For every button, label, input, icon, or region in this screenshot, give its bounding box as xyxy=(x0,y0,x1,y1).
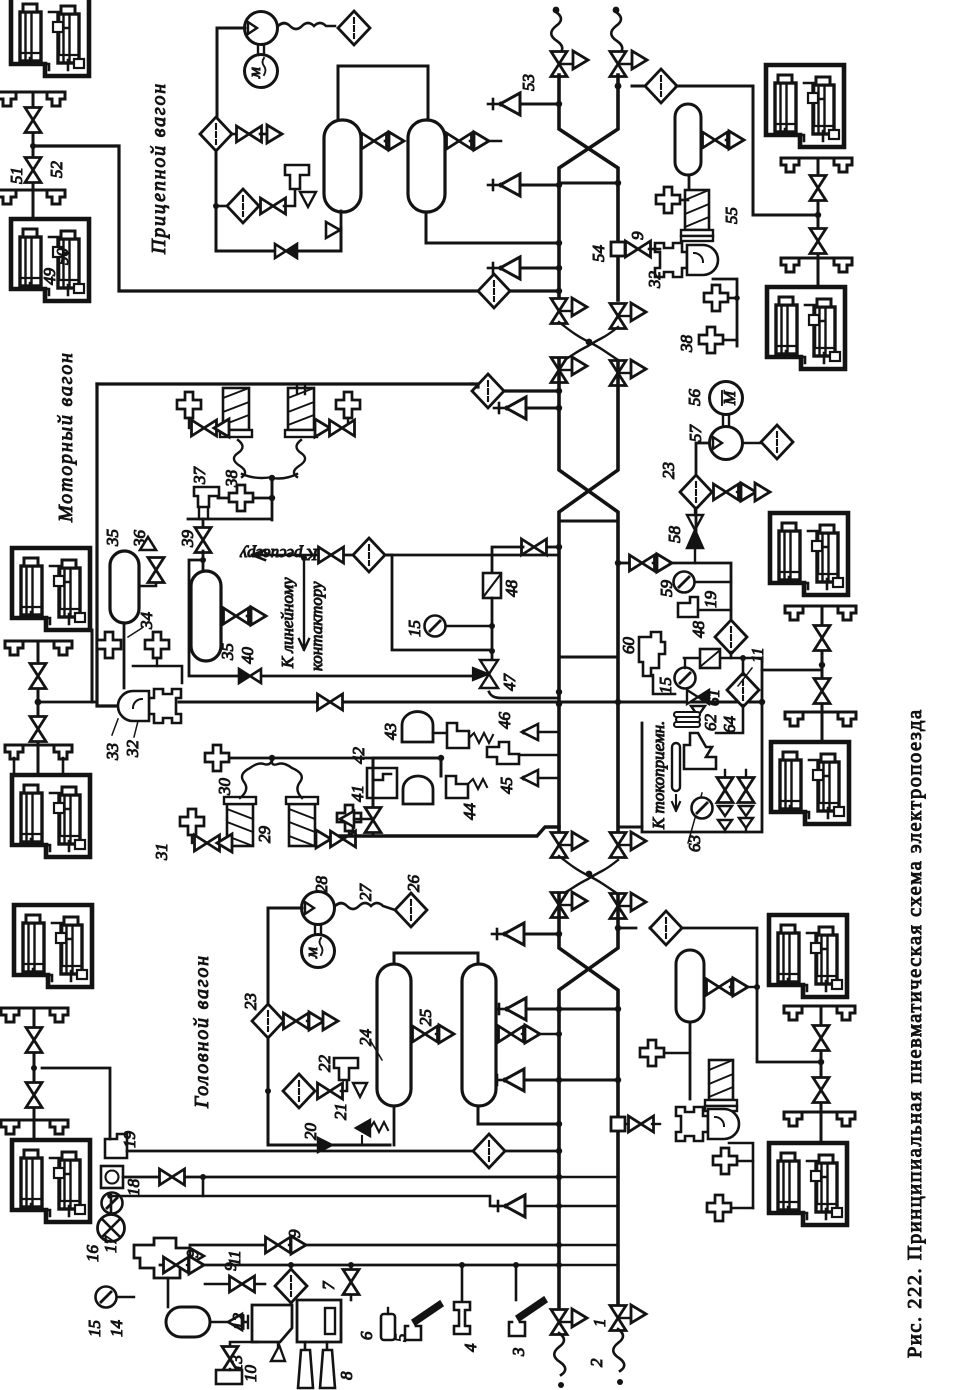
wire hose junction to device 37 line xyxy=(271,478,274,498)
svg-text:11: 11 xyxy=(748,647,767,663)
bogie box trailer-right-1 xyxy=(766,65,844,147)
trailer right: filter diamond to air unit xyxy=(632,69,818,215)
drain valve pair xyxy=(232,125,282,143)
aux reservoir trailer right xyxy=(675,104,701,175)
bogie box motor-left-1 xyxy=(12,548,90,630)
valve right of 25 to trunk xyxy=(496,1025,562,1043)
filter diamond 2 xyxy=(216,189,259,223)
svg-text:15: 15 xyxy=(405,620,424,637)
bogie box trailer-right-2 xyxy=(767,287,845,369)
valve to trunk xyxy=(611,1117,625,1131)
wire left trunk upper xyxy=(559,75,618,300)
node y243 junction reservoir line xyxy=(556,240,562,246)
svg-text:29: 29 xyxy=(255,826,274,844)
hoses from contactors xyxy=(234,440,272,478)
main reservoir 2 trailer xyxy=(408,120,445,212)
svg-text:33: 33 xyxy=(103,743,122,761)
svg-text:6: 6 xyxy=(357,1331,376,1340)
valve on K resiveru line xyxy=(319,547,344,563)
hoses crossing boundary 2 xyxy=(559,856,618,894)
valve 10 xyxy=(230,1342,258,1348)
device 19 xyxy=(678,597,698,617)
svg-text:К линейному: К линейному xyxy=(278,577,297,669)
svg-text:Головной вагон: Головной вагон xyxy=(191,954,213,1109)
end cock right below hose 2 xyxy=(610,893,646,919)
svg-text:32: 32 xyxy=(123,740,142,759)
wire boundary motor/head xyxy=(340,827,559,836)
valve 40 xyxy=(239,669,261,683)
stop cock at y185 xyxy=(488,174,562,196)
svg-text:47: 47 xyxy=(500,673,519,692)
gauge 15b xyxy=(675,660,696,689)
svg-text:60: 60 xyxy=(619,637,638,655)
dome unit head xyxy=(676,1107,739,1141)
lines y1245 y1265 xyxy=(190,1244,559,1247)
wire left feeder down xyxy=(97,384,119,706)
pedal valve 3 xyxy=(515,1265,518,1300)
svg-text:30: 30 xyxy=(215,778,234,797)
svg-text:48: 48 xyxy=(502,580,521,598)
compressor 28 xyxy=(302,892,335,925)
wire trunk motor section xyxy=(559,360,618,830)
wire right trunk upper xyxy=(559,75,618,300)
svg-text:11: 11 xyxy=(225,1250,244,1266)
svg-text:16: 16 xyxy=(83,1245,102,1263)
svg-text:35: 35 xyxy=(218,643,237,661)
bogie box motor-left-2 xyxy=(12,775,90,857)
svg-text:39: 39 xyxy=(178,530,197,549)
drain valves on 35b xyxy=(221,607,266,625)
svg-text:62: 62 xyxy=(701,714,720,732)
svg-text:54: 54 xyxy=(589,245,608,263)
svg-text:56: 56 xyxy=(685,389,704,407)
svg-text:23: 23 xyxy=(241,993,260,1010)
valve right of reservoir 2 xyxy=(445,132,501,150)
svg-text:51: 51 xyxy=(7,167,26,184)
wire down to oil separator xyxy=(215,150,218,251)
device 5 xyxy=(381,1314,395,1340)
stop cock y934 xyxy=(492,923,562,945)
svg-text:26: 26 xyxy=(404,875,423,893)
EPK head xyxy=(705,1060,737,1111)
svg-text:9: 9 xyxy=(285,1229,304,1238)
device 18 + line y1177 xyxy=(101,1166,123,1188)
valve bogie chain motor-left lower xyxy=(30,717,46,742)
filter diamond on K resiveru xyxy=(353,538,385,572)
intake diamond 26 xyxy=(395,893,427,927)
svg-text:28: 28 xyxy=(312,876,331,894)
drain valve pair xyxy=(701,131,744,149)
svg-text:3: 3 xyxy=(509,1348,528,1358)
intake filter diamond xyxy=(338,11,370,45)
device 37 xyxy=(194,487,219,507)
check into reservoir xyxy=(326,222,340,238)
bellows 62 xyxy=(674,712,700,727)
node y704 xyxy=(556,701,562,707)
cross xyxy=(640,1040,690,1066)
motor of compressor 28 xyxy=(302,935,335,968)
gauge bottom xyxy=(692,798,713,819)
valve 25 between xyxy=(411,1025,454,1043)
svg-text:64: 64 xyxy=(720,716,739,734)
device 42 xyxy=(367,768,397,798)
svg-text:25: 25 xyxy=(416,1009,435,1026)
compressor to diamond 23 xyxy=(696,443,709,477)
device 45 xyxy=(487,742,519,764)
end cock right top xyxy=(610,51,647,77)
node K lineynomu branch xyxy=(301,555,307,561)
device 60 xyxy=(639,632,665,676)
line y1196 xyxy=(203,1177,494,1206)
device 12 xyxy=(252,1305,292,1342)
wire crosses 34 to unit 33 xyxy=(133,666,182,683)
valve bogie chain head-right upper xyxy=(813,1026,829,1051)
svg-text:15: 15 xyxy=(85,1320,104,1337)
aux reservoir head right xyxy=(676,950,704,1022)
device 63/64 block xyxy=(684,733,716,769)
stop cock y1080 + rung xyxy=(492,1069,621,1091)
svg-text:50: 50 xyxy=(53,248,72,266)
svg-text:61: 61 xyxy=(704,689,723,706)
svg-text:31: 31 xyxy=(152,843,171,861)
svg-text:59: 59 xyxy=(657,580,676,598)
stop cock at y268 xyxy=(488,257,562,279)
node bogie feed trailer-right xyxy=(815,212,821,218)
leader lines 33 32 xyxy=(112,719,138,737)
bell 43 xyxy=(402,712,433,742)
reservoir 25 to trunk xyxy=(478,1106,559,1124)
filter diamond 48b xyxy=(715,620,747,654)
svg-text:м: м xyxy=(302,947,321,959)
svg-text:8: 8 xyxy=(337,1371,356,1380)
valve bogie chain head-left lower xyxy=(26,1083,42,1108)
wire y519 local xyxy=(188,477,272,520)
svg-text:4: 4 xyxy=(461,1343,480,1352)
svg-text:48: 48 xyxy=(689,621,708,639)
reservoir 35a xyxy=(110,551,139,623)
cross 38 xyxy=(699,327,737,353)
wire reservoir 24 stem xyxy=(393,1106,396,1145)
svg-text:52: 52 xyxy=(47,161,66,179)
svg-text:21: 21 xyxy=(331,1103,350,1120)
drain triangle xyxy=(300,192,316,207)
node y1265 xyxy=(556,1262,562,1268)
svg-text:19: 19 xyxy=(120,1131,139,1149)
svg-text:К токоприемн.: К токоприемн. xyxy=(649,721,668,830)
filter on line 19 xyxy=(473,1134,505,1168)
gauge 15 xyxy=(425,616,493,637)
junction + bell 44 xyxy=(373,758,441,776)
valve 10 stem xyxy=(229,1369,231,1370)
drain valves of separator 23 xyxy=(712,483,770,501)
reservoir 25 xyxy=(462,964,496,1106)
end cock right below hose xyxy=(610,360,646,386)
cross left xyxy=(177,392,201,428)
device 19h + line y1151 xyxy=(105,1134,127,1158)
stop cock y408 xyxy=(494,397,562,419)
filter diamond on main line xyxy=(478,274,562,308)
svg-text:12: 12 xyxy=(229,1313,248,1331)
cross 38 motor xyxy=(229,485,253,511)
svg-text:35: 35 xyxy=(103,529,122,547)
ports under box xyxy=(0,92,65,106)
compressor 57 xyxy=(710,427,743,460)
valve bogie chain head-right lower xyxy=(813,1078,829,1103)
valve 51 xyxy=(32,92,35,219)
svg-text:38: 38 xyxy=(677,335,696,354)
valve bogie chain trailer-right lower xyxy=(810,229,826,254)
svg-text:40: 40 xyxy=(238,647,257,665)
wire compressor 28 discharge loop xyxy=(268,1037,390,1145)
svg-text:46: 46 xyxy=(495,712,514,730)
stop cock 53 xyxy=(488,93,562,115)
hose contactor 29 right xyxy=(272,762,302,798)
wire rung y183 xyxy=(559,182,618,185)
svg-text:15: 15 xyxy=(656,677,675,694)
cross 2 xyxy=(704,285,740,311)
check triangle left xyxy=(340,811,373,827)
wire 37 to 39 xyxy=(202,519,205,527)
svg-text:Рис. 222. Принципиальная пневм: Рис. 222. Принципиальная пневматическая … xyxy=(904,708,926,1358)
unit loop + crosses xyxy=(729,1143,753,1208)
svg-text:49: 49 xyxy=(40,268,59,286)
valve 9 to diamond 11h xyxy=(205,1283,265,1286)
separator diamond xyxy=(200,117,232,151)
hose compressor intake xyxy=(278,23,335,29)
branch pantograph y563 xyxy=(618,554,731,622)
hoses crossing boundary 1 xyxy=(559,322,618,360)
rect 61 on line xyxy=(684,657,762,660)
valve bogie chain trailer-right upper xyxy=(810,176,826,201)
bogie motor right xyxy=(770,513,848,595)
svg-text:41: 41 xyxy=(348,785,367,802)
contactor cluster bottom xyxy=(224,797,256,846)
stop cock y1206 xyxy=(493,1195,618,1217)
svg-text:32: 32 xyxy=(645,271,664,290)
check 20 black xyxy=(318,1138,332,1152)
bogie box trailer-left-2 xyxy=(11,219,89,301)
diamond 23h xyxy=(252,1004,284,1038)
pantograph cylinder 63 xyxy=(672,743,680,791)
svg-text:14: 14 xyxy=(107,1320,126,1338)
reservoir 24 xyxy=(377,964,411,1106)
valve 21 spring xyxy=(356,1120,388,1145)
svg-text:42: 42 xyxy=(349,747,368,765)
wire rung y521 xyxy=(559,520,618,523)
valve bogie chain motor-left upper xyxy=(30,664,46,689)
wire 35a down xyxy=(123,623,126,688)
valve to safety device xyxy=(259,189,295,214)
valve bogie chain motor-right upper xyxy=(814,626,830,651)
wire to device 37 xyxy=(218,497,272,500)
svg-text:53: 53 xyxy=(519,74,538,91)
bogie box head-right-2 xyxy=(769,1143,847,1225)
valve 13 xyxy=(210,1314,248,1330)
check 46 xyxy=(521,724,559,740)
reservoir 35b xyxy=(202,551,205,571)
K resiveru arrow xyxy=(332,554,559,557)
filter diamond 11 head xyxy=(275,1269,307,1303)
bogie head-right xyxy=(769,915,847,997)
wire unit loop xyxy=(713,279,737,346)
valve 36 xyxy=(139,581,156,586)
svg-text:Прицепной вагон: Прицепной вагон xyxy=(148,82,170,255)
svg-text:10: 10 xyxy=(241,1365,260,1383)
crossed circle 16/17 xyxy=(98,1196,125,1242)
driver brake valve 16 xyxy=(134,1238,190,1278)
wire rung y657 xyxy=(559,656,618,659)
svg-text:18: 18 xyxy=(124,1179,143,1197)
valve bogie chain motor-right lower xyxy=(814,679,830,704)
svg-text:23: 23 xyxy=(659,462,678,479)
cross right xyxy=(336,392,360,428)
svg-text:1: 1 xyxy=(590,1319,609,1328)
end cock left top xyxy=(551,51,588,77)
valve on line 18 xyxy=(160,1169,185,1185)
check 58 xyxy=(687,508,703,563)
crosses 34 xyxy=(97,632,121,658)
wire valve16 to reservoir 14 xyxy=(167,1278,170,1307)
valve 61 xyxy=(653,675,675,694)
wire bogie feed to main line xyxy=(30,143,36,149)
svg-text:контактору: контактору xyxy=(307,581,326,671)
valve between reservoirs xyxy=(361,132,404,150)
svg-text:37: 37 xyxy=(190,466,209,486)
valve 9 on line y1245 xyxy=(266,1236,307,1254)
end cock bottom right trunk 2 xyxy=(610,1305,646,1385)
car boundary 1 valves xyxy=(551,298,587,324)
svg-text:17: 17 xyxy=(101,1235,120,1254)
wire box 6 to horns 8 xyxy=(305,1342,327,1350)
nodes on motor trunk xyxy=(556,388,562,394)
svg-text:43: 43 xyxy=(381,723,400,740)
branch y547 regulator 48 xyxy=(492,539,559,573)
svg-text:38: 38 xyxy=(222,470,241,489)
dome unit 33/32 xyxy=(118,689,181,723)
svg-text:44: 44 xyxy=(460,803,479,821)
hose to filter xyxy=(743,442,763,445)
svg-text:2: 2 xyxy=(587,1358,606,1367)
top link xyxy=(394,953,478,964)
safety block xyxy=(285,165,309,189)
bogie box motor-right-2 xyxy=(771,742,849,824)
main reservoir 1 trailer xyxy=(324,120,361,212)
svg-text:19: 19 xyxy=(701,591,720,609)
bogie head-left-1 xyxy=(14,905,92,987)
svg-text:22: 22 xyxy=(315,1055,334,1073)
cross + line xyxy=(656,187,688,213)
bogie box head-left-2 xyxy=(12,1140,90,1222)
device 22 xyxy=(334,1058,358,1080)
gauge 59 xyxy=(674,572,732,593)
svg-text:9: 9 xyxy=(628,231,647,240)
wire trunk right top hose xyxy=(611,7,622,55)
device 4 xyxy=(461,1265,464,1302)
svg-text:58: 58 xyxy=(665,526,684,544)
svg-text:К ресиверу: К ресиверу xyxy=(239,545,319,564)
car boundary 2 valves xyxy=(551,832,587,858)
valve bogie chain head-left upper xyxy=(26,1028,42,1053)
wire compressor discharge xyxy=(217,28,245,118)
svg-text:27: 27 xyxy=(356,883,375,902)
gauge under 18 xyxy=(102,1193,123,1214)
svg-text:м: м xyxy=(245,67,264,79)
svg-text:34: 34 xyxy=(137,612,156,631)
top link pipe xyxy=(338,66,428,120)
svg-text:55: 55 xyxy=(722,207,741,224)
motor trailer xyxy=(245,45,278,88)
svg-text:Моторный вагон: Моторный вагон xyxy=(55,351,77,523)
wire bogie chain motor-left xyxy=(37,641,40,775)
EPK hatched cylinder 55 xyxy=(681,190,713,241)
valve 52 xyxy=(25,158,41,183)
gauge 15h + reservoir 14 xyxy=(96,1287,117,1308)
bogie box trailer-left-1 xyxy=(11,0,89,76)
head right: filter diamond branch xyxy=(615,911,822,1062)
svg-text:57: 57 xyxy=(686,424,705,443)
discharge line xyxy=(268,908,302,1005)
wire trunk head section xyxy=(559,895,618,1307)
svg-text:7: 7 xyxy=(319,1280,338,1290)
device 6 box + horns 8 xyxy=(350,1265,353,1300)
svg-text:9: 9 xyxy=(183,1249,202,1258)
enclosure box xyxy=(642,660,762,832)
filter diamond on boundary line xyxy=(472,374,559,408)
end cock left below hose 2 xyxy=(551,892,587,918)
contactor cluster top xyxy=(220,388,252,437)
wire trunk left top hose xyxy=(551,7,562,55)
svg-text:45: 45 xyxy=(497,777,516,794)
filter diamond 11 xyxy=(727,673,759,707)
motor compressor 56/57 xyxy=(710,382,743,415)
end cock left below hose xyxy=(551,357,587,383)
bottom loop wire xyxy=(216,228,341,251)
wire contactor stem to boundary xyxy=(297,386,305,394)
wire motor top boundary xyxy=(97,382,472,385)
wire unit 32 to right xyxy=(179,701,762,704)
twin valve chains xyxy=(717,770,733,832)
valve 9 on branch from trunk xyxy=(611,242,625,256)
wire to EPK xyxy=(688,175,691,192)
filter diamond + valve 22 xyxy=(268,1074,347,1108)
valve 41 xyxy=(372,758,375,836)
ports row 2 xyxy=(0,190,65,204)
node right trunk y86 xyxy=(615,83,622,90)
end cock bottom left trunk 1 xyxy=(551,1309,587,1388)
pedal valve a xyxy=(412,1301,443,1325)
compressor trailer xyxy=(245,12,278,45)
dome unit 32 xyxy=(655,243,718,277)
check valve black xyxy=(275,244,297,258)
regulator block 43 xyxy=(447,723,469,748)
head-left bogie feed xyxy=(42,1068,110,1139)
stop cock y1009 + rung xyxy=(494,998,621,1020)
valve pair left bottom cluster xyxy=(195,834,233,852)
valve 47 three-way xyxy=(473,660,498,688)
hose 27 xyxy=(335,903,395,910)
wire reservoir to trunk xyxy=(426,212,559,243)
loop around reservoir xyxy=(189,560,478,676)
